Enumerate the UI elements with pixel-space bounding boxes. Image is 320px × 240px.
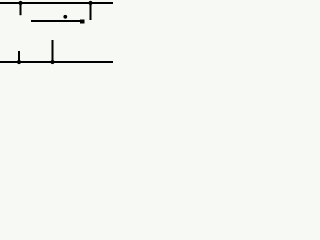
node floating dot above middle wire: [63, 15, 67, 19]
wire top horizontal net: [0, 2, 113, 4]
wire middle horizontal segment: [31, 20, 81, 22]
junction bottom-left: [17, 60, 21, 64]
wire vertical drop from top-left junction: [20, 2, 22, 15]
junction top-right: [88, 1, 92, 5]
wire vertical riser above bottom-middle junction: [52, 40, 54, 62]
junction bottom-middle: [50, 60, 54, 64]
junction top-left: [18, 1, 22, 5]
wire vertical stub above bottom-left junction: [18, 51, 20, 62]
node endpoint pad of middle wire: [80, 20, 85, 24]
wire bottom horizontal net: [0, 61, 113, 63]
wire vertical drop from top-right junction: [90, 2, 92, 20]
